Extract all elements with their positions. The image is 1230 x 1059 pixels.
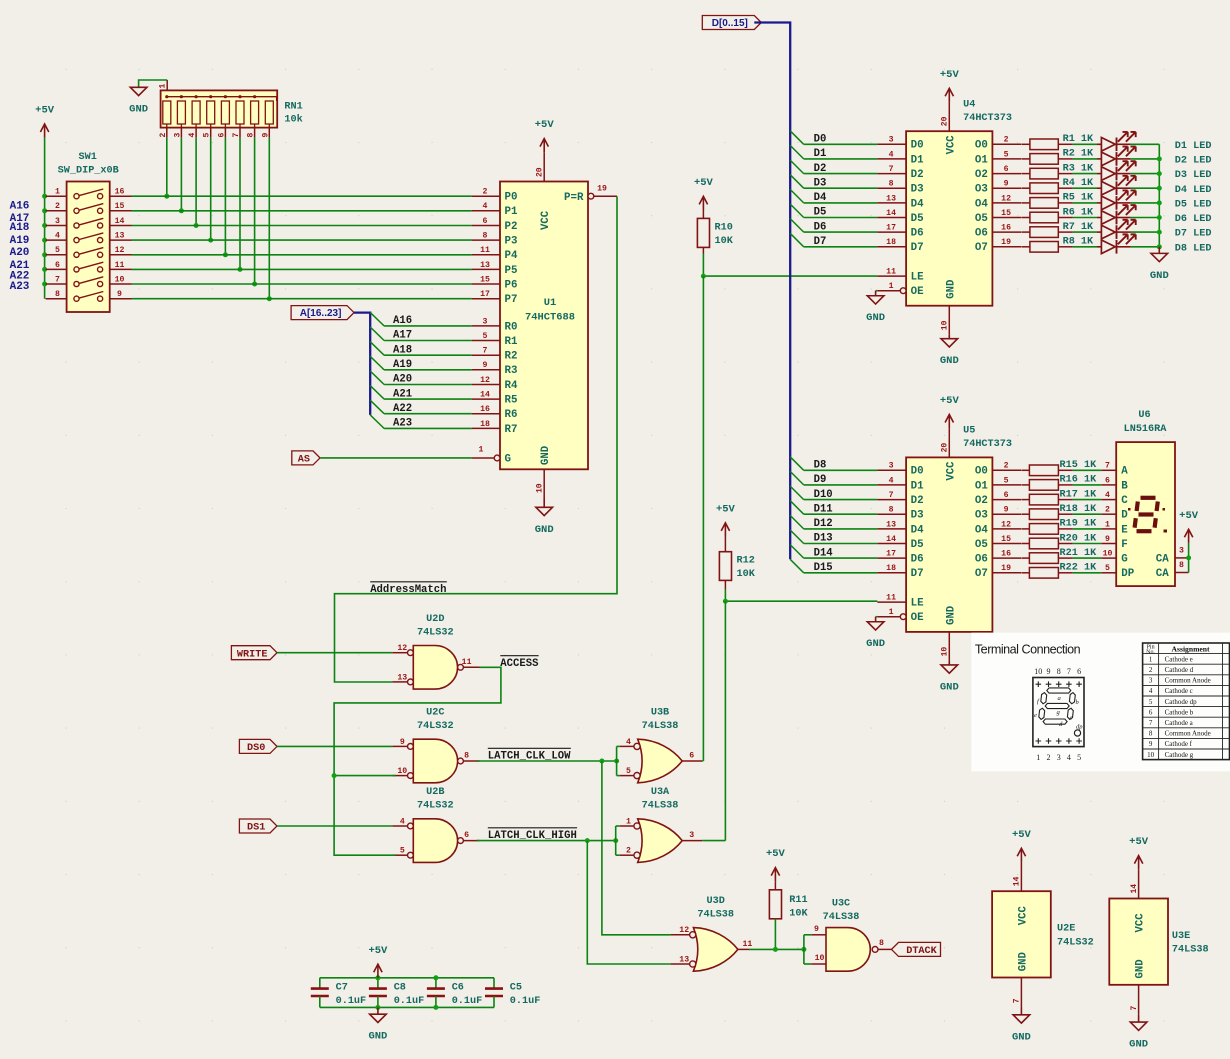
svg-text:SW_DIP_x0B: SW_DIP_x0B: [58, 165, 119, 176]
wire DS1 to U2B pin4: [277, 825, 393, 827]
wire DS0 to U2C pin9: [277, 745, 393, 747]
svg-text:7: 7: [1067, 667, 1071, 676]
7-segment pinout drawing: [1033, 667, 1084, 762]
svg-text:+5V: +5V: [716, 504, 736, 516]
svg-text:Cathode f: Cathode f: [1165, 740, 1193, 748]
U5 pin D4: [877, 528, 906, 530]
wire U1 P=R to AddressMatch: [335, 196, 618, 682]
global label WRITE: [231, 646, 277, 660]
svg-text:6: 6: [464, 831, 469, 840]
svg-text:8: 8: [55, 290, 60, 299]
IC U4 74HCT373: [906, 131, 992, 306]
SW1 pole 8: [46, 298, 67, 300]
U2E VCC pin 14: [1020, 862, 1022, 891]
U5 GND pin 10: [948, 632, 950, 661]
svg-text:7: 7: [1130, 1006, 1139, 1011]
svg-text:8: 8: [1149, 730, 1153, 738]
svg-text:GND: GND: [940, 681, 959, 693]
svg-text:c: c: [1070, 715, 1073, 722]
svg-text:15: 15: [1001, 209, 1011, 218]
svg-text:8: 8: [889, 180, 894, 189]
svg-text:7: 7: [483, 347, 488, 356]
svg-text:6: 6: [1105, 476, 1110, 485]
svg-text:9: 9: [1105, 535, 1110, 544]
svg-text:74LS32: 74LS32: [417, 721, 454, 732]
svg-text:D0: D0: [911, 140, 924, 152]
SW1 pole 4: [46, 239, 67, 241]
svg-text:11: 11: [886, 268, 896, 277]
svg-text:Cathode d: Cathode d: [1165, 666, 1194, 674]
svg-text:6: 6: [55, 261, 60, 270]
svg-text:8: 8: [1179, 561, 1184, 570]
U5 pin O5: [992, 543, 1021, 545]
wire R20 to U6: [1073, 543, 1102, 545]
U1 pin P3: [472, 239, 500, 241]
svg-text:74LS38: 74LS38: [823, 912, 860, 923]
U1 VCC pin 20: [543, 152, 545, 181]
svg-text:D3: D3: [814, 177, 827, 189]
bus entry A22: [370, 400, 384, 414]
svg-text:D1 LED: D1 LED: [1175, 141, 1212, 152]
U1 pin P4: [472, 254, 500, 256]
svg-text:+5V: +5V: [940, 395, 960, 407]
svg-text:9: 9: [1047, 667, 1051, 676]
svg-text:R15 1K: R15 1K: [1060, 460, 1098, 471]
bus entry A17: [370, 327, 384, 341]
wire R18 to U6: [1073, 513, 1102, 515]
svg-text:+5V: +5V: [694, 177, 714, 189]
svg-text:20: 20: [536, 167, 545, 177]
svg-text:+5V: +5V: [766, 848, 786, 860]
svg-text:8: 8: [1057, 667, 1061, 676]
svg-text:10: 10: [941, 320, 950, 330]
capacitor C6 0.1uF: [435, 978, 437, 989]
svg-text:6: 6: [689, 752, 694, 761]
svg-text:R4 1K: R4 1K: [1063, 178, 1094, 189]
svg-text:A16: A16: [10, 201, 30, 213]
svg-text:16: 16: [115, 188, 125, 197]
wire U3B input elbow: [616, 746, 618, 775]
+5V power symbol: [945, 415, 953, 429]
svg-text:WRITE: WRITE: [237, 649, 268, 660]
svg-text:VCC: VCC: [945, 135, 957, 155]
svg-text:R1: R1: [505, 336, 518, 348]
bus entry D13: [790, 530, 804, 544]
U6 seven segment glyph: [1128, 498, 1167, 533]
svg-text:D7: D7: [814, 236, 827, 248]
svg-text:3: 3: [689, 831, 694, 840]
svg-text:DS0: DS0: [247, 743, 265, 754]
svg-text:4: 4: [55, 232, 60, 241]
RN1 element 7: [236, 101, 244, 124]
RN1 element 4: [192, 101, 200, 124]
wire LED D1 to GND rail: [1131, 143, 1160, 145]
svg-text:19: 19: [1001, 238, 1011, 247]
global label DTACK: [892, 942, 941, 956]
wire R16 to U6: [1073, 484, 1102, 486]
U5 pin D6: [877, 557, 906, 559]
svg-text:19: 19: [597, 184, 607, 193]
svg-text:D[0..15]: D[0..15]: [712, 18, 748, 29]
svg-text:CA: CA: [1156, 568, 1169, 580]
svg-text:P1: P1: [505, 206, 518, 218]
wire RN1 pin 2: [166, 138, 168, 196]
svg-text:5: 5: [1077, 753, 1081, 762]
svg-text:GND: GND: [945, 606, 957, 625]
switch SW1 SW_DIP_x0B: [67, 182, 110, 313]
wire row A17: [132, 210, 472, 212]
wire LATCH_CLK_HIGH: [477, 840, 616, 842]
svg-text:D3 LED: D3 LED: [1175, 170, 1212, 181]
svg-text:Cathode e: Cathode e: [1165, 655, 1193, 663]
U5 pin O3: [992, 513, 1021, 515]
svg-text:9: 9: [117, 290, 122, 299]
wire RN1 pin 6: [224, 138, 226, 255]
svg-text:13: 13: [480, 261, 490, 270]
U4 pin D5: [877, 217, 906, 219]
svg-text:A20: A20: [10, 247, 30, 259]
svg-text:11: 11: [480, 246, 490, 255]
svg-text:1: 1: [1149, 655, 1153, 663]
svg-text:Terminal Connection: Terminal Connection: [975, 643, 1081, 657]
svg-text:12: 12: [679, 926, 689, 935]
wire LED D8 to GND rail: [1131, 246, 1160, 248]
U1 pin R3: [472, 369, 500, 371]
+5V power symbol: [374, 964, 382, 978]
svg-text:D: D: [1121, 510, 1128, 522]
U6 pin 5: [1102, 572, 1117, 574]
resistor R22 1K: [1021, 572, 1029, 574]
svg-text:12: 12: [115, 246, 125, 255]
svg-text:VCC: VCC: [1017, 905, 1029, 925]
bus entry D14: [790, 545, 804, 559]
svg-text:0.1uF: 0.1uF: [452, 996, 483, 1007]
U3E VCC pin 14: [1138, 869, 1140, 898]
svg-text:D4: D4: [814, 192, 827, 204]
wire R5 to LED D5: [1073, 202, 1097, 204]
svg-text:+5V: +5V: [368, 945, 388, 957]
svg-text:4: 4: [483, 202, 488, 211]
svg-text:13: 13: [886, 194, 896, 203]
wire row A22: [132, 283, 472, 285]
U5 pin D0: [877, 469, 906, 471]
U5 pin D5: [877, 543, 906, 545]
U6 pin 10: [1102, 557, 1117, 559]
svg-text:GND: GND: [866, 312, 885, 324]
U4 pin O7: [992, 246, 1021, 248]
wire U4 OE to GND: [876, 290, 878, 292]
wire RN1 pin 8: [254, 138, 256, 284]
U4 pin O1: [992, 158, 1021, 160]
SW1 pole 5: [46, 254, 67, 256]
svg-text:GND: GND: [1135, 959, 1147, 978]
LED D1: [1097, 143, 1101, 145]
wire row A19: [132, 239, 472, 241]
U6 pin CA 8: [1175, 572, 1189, 574]
svg-text:6: 6: [483, 217, 488, 226]
svg-text:17: 17: [480, 290, 490, 299]
wire D0: [804, 143, 878, 145]
LED D6: [1097, 217, 1101, 219]
bus entry A19: [370, 356, 384, 370]
svg-text:OE: OE: [911, 286, 924, 298]
svg-text:GND: GND: [1150, 270, 1169, 282]
resistor R6 1K: [1021, 217, 1030, 219]
RN1 element 6: [221, 101, 229, 124]
svg-text:9: 9: [814, 925, 819, 934]
U4 pin LE: [877, 275, 906, 277]
bus entry A16: [370, 312, 384, 326]
svg-text:VCC: VCC: [1135, 913, 1147, 933]
wire A16: [384, 325, 472, 327]
svg-text:A18: A18: [10, 222, 30, 234]
svg-text:10: 10: [815, 954, 825, 963]
svg-text:7: 7: [1013, 998, 1022, 1003]
svg-text:17: 17: [886, 550, 896, 559]
svg-text:P6: P6: [505, 279, 518, 291]
svg-text:4: 4: [626, 738, 631, 747]
svg-text:D0: D0: [911, 466, 924, 478]
svg-text:R5: R5: [505, 395, 518, 407]
svg-text:O3: O3: [975, 184, 988, 196]
wire D12: [804, 528, 878, 530]
svg-text:D6: D6: [814, 221, 827, 233]
svg-text:D2: D2: [911, 495, 924, 507]
svg-text:10: 10: [941, 647, 950, 657]
U4 GND pin 10: [948, 306, 950, 335]
wire R10 to U4 LE: [703, 254, 877, 277]
gate U3D 74LS38: [693, 928, 738, 972]
U4 pin O0: [992, 143, 1021, 145]
svg-text:D13: D13: [814, 533, 833, 545]
svg-text:10K: 10K: [789, 909, 808, 920]
svg-text:10: 10: [1147, 751, 1155, 759]
ground: [536, 498, 553, 516]
resistor R21 1K: [1021, 557, 1029, 559]
svg-text:3: 3: [1057, 753, 1061, 762]
capacitor C5 0.1uF: [493, 978, 495, 989]
svg-text:2: 2: [1004, 136, 1009, 145]
svg-text:O1: O1: [975, 480, 988, 492]
wire LED D2 to GND rail: [1131, 158, 1160, 160]
wire R7 to LED D7: [1073, 231, 1097, 233]
svg-text:6: 6: [1077, 667, 1081, 676]
svg-text:R4: R4: [505, 380, 518, 392]
svg-text:R2: R2: [505, 351, 518, 363]
svg-text:1: 1: [159, 84, 168, 89]
svg-text:+5V: +5V: [1179, 510, 1199, 522]
svg-text:R16 1K: R16 1K: [1060, 475, 1098, 486]
svg-text:LATCH_CLK_HIGH: LATCH_CLK_HIGH: [488, 830, 577, 842]
svg-text:CA: CA: [1156, 553, 1169, 565]
svg-text:4: 4: [889, 150, 894, 159]
resistor R18 1K: [1021, 513, 1029, 515]
svg-text:R6: R6: [505, 409, 518, 421]
gate U3B 74LS38: [638, 739, 683, 783]
LED D4: [1097, 187, 1101, 189]
ground: [130, 87, 147, 96]
bus D: [754, 23, 790, 560]
resistor R4 1K: [1021, 187, 1030, 189]
svg-text:O2: O2: [975, 495, 988, 507]
Terminal Connection panel: [971, 633, 1230, 772]
bus entry D10: [790, 486, 804, 500]
svg-text:3: 3: [1149, 677, 1153, 685]
svg-text:Common Anode: Common Anode: [1165, 677, 1211, 685]
SW1 pole 2: [46, 210, 67, 212]
svg-text:SW1: SW1: [79, 152, 97, 163]
svg-text:O0: O0: [975, 466, 988, 478]
svg-text:U2D: U2D: [426, 614, 444, 625]
svg-text:20: 20: [941, 443, 950, 453]
svg-text:1: 1: [1105, 520, 1110, 529]
wire R22 to U6: [1073, 572, 1102, 574]
svg-text:0.1uF: 0.1uF: [510, 996, 541, 1007]
svg-text:11: 11: [462, 658, 472, 667]
bus entry A20: [370, 371, 384, 385]
wire R12 to U5 LE: [725, 589, 877, 601]
svg-text:7: 7: [889, 491, 894, 500]
svg-text:E: E: [1121, 524, 1128, 536]
RN1 element 5: [207, 101, 215, 124]
svg-text:O7: O7: [975, 568, 988, 580]
svg-text:e: e: [1034, 712, 1037, 719]
svg-text:12: 12: [1001, 520, 1011, 529]
svg-text:+5V: +5V: [35, 105, 55, 117]
U5 pin O0: [992, 469, 1021, 471]
wire D15: [804, 572, 878, 574]
svg-text:LE: LE: [911, 598, 924, 610]
svg-text:D1: D1: [911, 154, 924, 166]
svg-text:U3B: U3B: [651, 708, 669, 719]
svg-text:2: 2: [55, 202, 60, 211]
wire D5: [804, 217, 878, 219]
svg-text:DP: DP: [1121, 568, 1134, 580]
svg-text:74LS32: 74LS32: [417, 801, 454, 812]
wire A20: [384, 384, 472, 386]
svg-text:U5: U5: [963, 426, 975, 437]
svg-text:D2: D2: [911, 169, 924, 181]
svg-text:A19: A19: [10, 235, 30, 247]
bus entry D7: [790, 233, 804, 247]
bus entry A18: [370, 342, 384, 356]
svg-text:1: 1: [1036, 753, 1040, 762]
svg-text:2: 2: [626, 847, 631, 856]
svg-text:1: 1: [626, 817, 631, 826]
U4 pin O2: [992, 173, 1021, 175]
svg-text:R3 1K: R3 1K: [1063, 163, 1094, 174]
U1 pin R5: [472, 398, 500, 400]
ground: [941, 660, 958, 673]
global label AS: [292, 451, 320, 465]
wire A17: [384, 340, 472, 342]
svg-text:R11: R11: [789, 895, 807, 906]
bus entry D15: [790, 559, 804, 573]
svg-text:11: 11: [115, 261, 125, 270]
svg-text:GND: GND: [1129, 1039, 1148, 1051]
U1 pin R0: [472, 325, 500, 327]
wire U3C input elbow: [803, 935, 805, 964]
wire U3A input elbow: [615, 826, 617, 855]
svg-text:R6 1K: R6 1K: [1063, 207, 1094, 218]
gate U2B 74LS32: [413, 819, 457, 863]
U1 pin R2: [472, 354, 500, 356]
svg-text:12: 12: [480, 376, 490, 385]
U5 pin O7: [992, 572, 1021, 574]
U5 VCC pin 20: [948, 428, 950, 457]
svg-text:D3: D3: [911, 510, 924, 522]
ground: [1151, 247, 1168, 262]
svg-text:4: 4: [1149, 687, 1153, 695]
svg-text:Assignment: Assignment: [1172, 644, 1210, 653]
svg-text:5: 5: [400, 847, 405, 856]
global label DS1: [239, 819, 277, 833]
svg-text:A23: A23: [393, 418, 412, 430]
svg-text:16: 16: [1001, 224, 1011, 233]
svg-text:8: 8: [879, 939, 884, 948]
resistor R19 1K: [1021, 528, 1029, 530]
svg-text:4: 4: [1105, 491, 1110, 500]
U5 pin D7: [877, 572, 906, 574]
svg-text:GND: GND: [1017, 952, 1029, 971]
svg-text:P0: P0: [505, 192, 518, 204]
svg-text:6: 6: [1004, 165, 1009, 174]
wire D9: [804, 484, 878, 486]
svg-text:2: 2: [483, 188, 488, 197]
svg-text:0.1uF: 0.1uF: [394, 996, 425, 1007]
svg-text:R0: R0: [505, 321, 518, 333]
U4 pin D1: [877, 158, 906, 160]
bus entry D12: [790, 515, 804, 529]
svg-text:OE: OE: [911, 612, 924, 624]
svg-text:74LS32: 74LS32: [417, 627, 454, 638]
svg-text:9: 9: [1149, 740, 1153, 748]
wire D3: [804, 187, 878, 189]
svg-text:16: 16: [1001, 550, 1011, 559]
svg-text:ACCESS: ACCESS: [500, 658, 539, 670]
svg-text:10K: 10K: [737, 569, 756, 580]
svg-text:C: C: [1121, 495, 1128, 507]
gate U2D 74LS32: [413, 646, 457, 690]
svg-text:D0: D0: [814, 134, 827, 146]
svg-text:DS1: DS1: [247, 823, 265, 834]
svg-text:10: 10: [397, 767, 407, 776]
svg-text:C8: C8: [394, 983, 406, 994]
U1 pin P6: [472, 283, 500, 285]
svg-text:D6: D6: [911, 554, 924, 566]
svg-text:A23: A23: [10, 281, 30, 293]
svg-text:12: 12: [1001, 194, 1011, 203]
global label DS0: [239, 739, 277, 753]
svg-text:D5: D5: [814, 207, 827, 219]
svg-text:4: 4: [400, 817, 405, 826]
bus entry D3: [790, 175, 804, 189]
svg-text:GND: GND: [535, 524, 554, 536]
U4 pin O5: [992, 217, 1021, 219]
svg-text:3: 3: [1179, 546, 1184, 555]
svg-text:O1: O1: [975, 154, 988, 166]
wire D11: [804, 513, 878, 515]
LED GND rail: [1158, 144, 1160, 247]
wire D4: [804, 202, 878, 204]
U3E GND pin 7: [1138, 985, 1140, 1015]
wire ACCESS to U2C pin10: [334, 775, 396, 777]
svg-text:15: 15: [1001, 535, 1011, 544]
bus entry D9: [790, 471, 804, 485]
+5V power symbol: [1184, 529, 1192, 543]
ground: [370, 1007, 387, 1022]
svg-text:AS: AS: [298, 455, 310, 466]
